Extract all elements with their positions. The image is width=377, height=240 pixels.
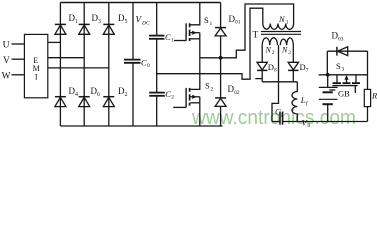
label D5 [118, 13, 128, 25]
svg-text:2: 2 [171, 95, 174, 101]
label N1 [278, 14, 289, 26]
svg-text:1: 1 [75, 19, 78, 25]
node V input label [3, 56, 10, 66]
svg-text:DC: DC [141, 21, 150, 27]
svg-text:I: I [35, 73, 38, 82]
svg-text:2: 2 [211, 87, 214, 93]
label D6 [91, 86, 101, 98]
wire D03 left leg [326, 51, 328, 75]
capacitor C0 [124, 58, 150, 70]
label GB [338, 88, 350, 98]
svg-text:3: 3 [342, 67, 345, 73]
transformer T primary winding N1 [263, 24, 294, 30]
capacitor C2 [149, 89, 174, 101]
svg-text:S: S [204, 15, 209, 25]
wire U input [12, 43, 25, 45]
svg-text:T: T [253, 31, 259, 41]
wire V input [12, 58, 25, 60]
wire capacitor midpoint to primary return [157, 8, 263, 79]
capacitor C1 [149, 32, 174, 44]
node W input label [2, 71, 11, 81]
wire half-bridge midpoint [200, 4, 294, 58]
svg-text:02: 02 [234, 90, 240, 96]
wire EMI output phase 3 [48, 67, 109, 69]
transistor S1 [174, 3, 200, 42]
svg-text:U: U [3, 41, 10, 51]
diode D5 [103, 24, 114, 34]
svg-text:2: 2 [272, 50, 275, 56]
label VDC [136, 15, 150, 27]
svg-text:W: W [2, 71, 11, 81]
wire bridge column 3 [108, 3, 110, 127]
wire S2 source to bottom rail [199, 103, 201, 126]
svg-text:1: 1 [171, 38, 174, 44]
wire EMI output phase 2 [48, 57, 84, 59]
wire W input [12, 74, 25, 76]
svg-text:6: 6 [97, 92, 100, 98]
svg-text:S: S [336, 61, 341, 71]
svg-text:4: 4 [75, 92, 78, 98]
svg-text:0: 0 [147, 63, 150, 69]
label S3 [336, 61, 345, 73]
transformer secondary winding N2 left [262, 38, 277, 45]
wire bottom DC rail [60, 125, 222, 127]
label D1 [69, 13, 79, 25]
svg-text:7: 7 [306, 68, 309, 74]
label D03 [332, 31, 344, 43]
svg-text:1: 1 [286, 20, 289, 26]
label D7 [300, 62, 309, 74]
inductor L [292, 82, 297, 122]
svg-text:03: 03 [338, 36, 344, 42]
node U input label [3, 41, 10, 51]
label D8 [268, 62, 277, 74]
diode D7 [288, 45, 298, 82]
wire EMI output phase 1 [48, 41, 61, 43]
label D01 [229, 14, 241, 26]
wire bridge column 1 [59, 3, 61, 127]
diode D8 [255, 45, 267, 82]
svg-text:GB: GB [338, 88, 350, 98]
svg-text:R: R [371, 91, 377, 101]
svg-text:f: f [306, 100, 309, 107]
label L [300, 95, 309, 107]
wire capacitor leg [156, 3, 158, 127]
label D3 [92, 13, 102, 25]
junction midpoint dot [219, 56, 223, 60]
svg-text:N: N [265, 45, 272, 54]
svg-text:0: 0 [308, 123, 311, 129]
label N2 right [281, 45, 291, 55]
transistor S3 [328, 75, 368, 93]
label D2 [118, 86, 128, 98]
diode D2 [103, 97, 114, 107]
battery GB [319, 75, 338, 122]
transistor S2 [173, 58, 200, 108]
wire battery branch stub [319, 74, 328, 76]
wire S1 source to midpoint [199, 39, 201, 58]
EMI filter block U1 [24, 34, 47, 97]
diode D4 [55, 97, 66, 107]
svg-text:2: 2 [125, 92, 128, 98]
svg-text:N: N [281, 45, 288, 54]
svg-text:V: V [3, 56, 10, 66]
svg-text:2: 2 [288, 50, 291, 56]
diode D3 [79, 24, 90, 34]
wire top DC rail [60, 2, 220, 4]
svg-text:1: 1 [210, 21, 213, 27]
wire D03 right leg [367, 51, 369, 89]
label N2 left [265, 45, 275, 55]
transformer core [261, 32, 301, 35]
label D02 [228, 84, 240, 96]
label S1 [204, 15, 213, 27]
wire center tap [272, 45, 279, 121]
transformer secondary winding N2 right [280, 38, 293, 45]
watermark www.cntronics.com [191, 107, 356, 129]
label S2 [205, 81, 214, 93]
svg-text:8: 8 [274, 68, 277, 74]
diode D03 [327, 47, 367, 56]
svg-text:5: 5 [125, 19, 128, 25]
svg-text:01: 01 [235, 20, 241, 26]
svg-text:S: S [205, 81, 210, 91]
diode D6 [79, 97, 90, 107]
diode D01 [215, 3, 226, 58]
wire DC bus with C0 [132, 3, 134, 127]
svg-text:3: 3 [98, 19, 101, 25]
wire rectifier cathode rail [262, 81, 297, 83]
label V0 [302, 118, 311, 130]
junction battery dot [326, 73, 330, 77]
label D4 [69, 86, 79, 98]
wire bridge column 2 [83, 3, 85, 127]
label R [371, 91, 377, 101]
svg-text:N: N [278, 14, 286, 24]
diode D1 [55, 24, 66, 34]
wire output bottom rail [272, 121, 367, 123]
label T [253, 31, 259, 41]
diode D02 [215, 58, 226, 126]
capacitor Cf [275, 107, 284, 125]
resistor R [364, 89, 370, 121]
